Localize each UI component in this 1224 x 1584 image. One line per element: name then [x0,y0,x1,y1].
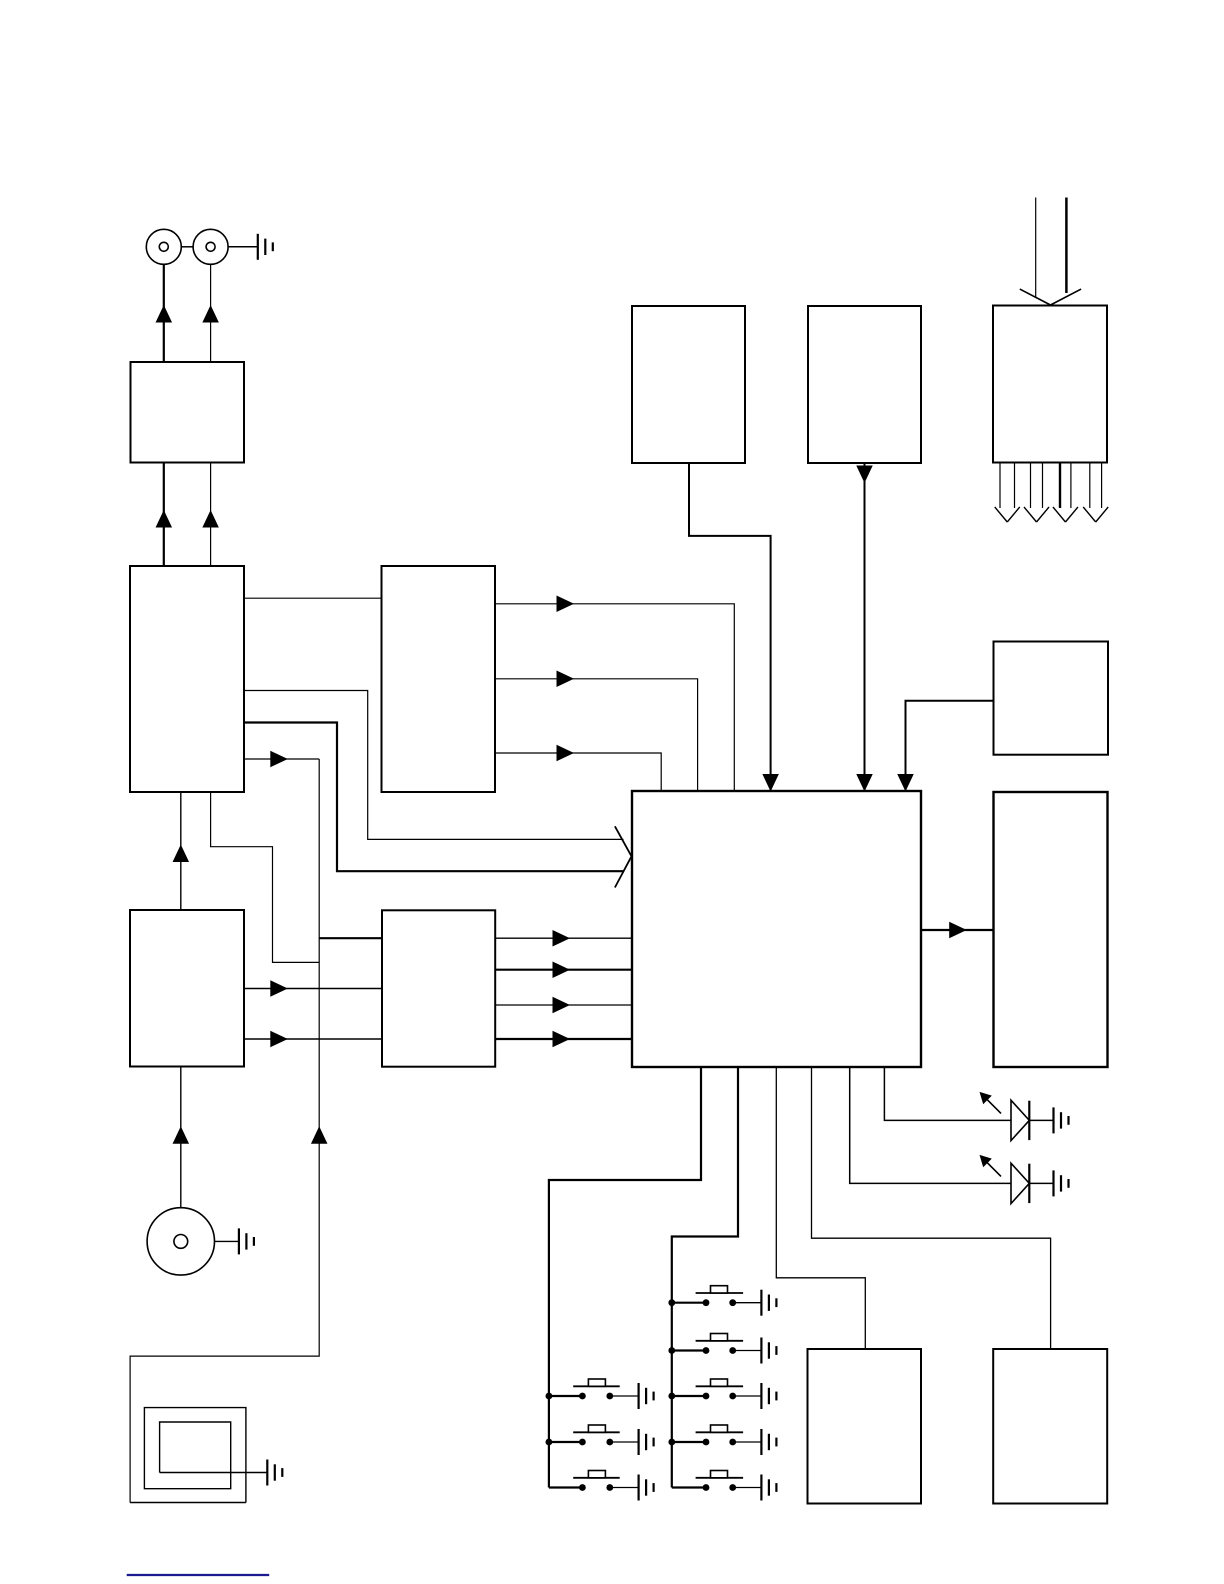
box U12 [808,1349,922,1504]
arrowhead up on wire U9-U2 [173,845,190,863]
wire J1-J2 [181,246,193,248]
hollow output arrow 3 from U6 [1053,463,1078,523]
ground at S8 [761,1475,776,1501]
arrowhead right on U3 out3 [557,745,575,762]
bus arrowhead chevron at U8 [615,826,632,887]
ground at S5 [761,1338,776,1364]
box U7 [994,642,1109,755]
hollow output arrow 2 from U6 [1024,463,1049,523]
arrowhead up on wire U2-U1 left [156,510,173,528]
box U4 [632,306,745,463]
ground G3 at D1 [1054,1107,1069,1133]
wire U2 out lower [244,758,319,760]
ground at S1 [639,1383,654,1409]
wire U5 to U8 [864,463,866,791]
wire L1 to ground [160,1472,268,1474]
wire U8 to LED D1 [884,1067,1011,1120]
ground at S7 [761,1429,776,1455]
arrowhead up on vertical long [311,1126,328,1144]
wire U10 out3 to U8 [495,1004,632,1006]
arrowhead down near U5 [856,466,873,484]
box U13 [993,1349,1107,1504]
hollow output arrow 1 from U6 [995,463,1020,523]
box U1 [131,362,245,463]
wire U2 bus upper [244,691,624,840]
wire U2 to U1 right [210,463,212,567]
arrowhead right on U3 out2 [557,671,575,688]
LED D1 [980,1092,1054,1141]
box U8 (central controller) [632,791,921,1067]
ground at S4 [761,1290,776,1316]
wire U2 bus lower [244,723,624,872]
wire U3 out2 [495,679,698,791]
wire U8 to right key bus [672,1067,738,1488]
wire U2 to U1 left [163,463,165,567]
box U3 [382,566,496,792]
arrowhead right on U3 out1 [557,596,575,613]
wire U8 to U13 [812,1067,1051,1349]
microphone MK1 [147,1208,214,1275]
ground G5 at L1 [267,1460,282,1486]
ground G4 at D2 [1054,1170,1069,1196]
wire U2 to U3 [244,597,382,599]
footer link underline [127,1574,270,1576]
LED D2 [980,1155,1054,1204]
hollow output arrow 4 from U6 [1083,463,1108,523]
box U10 [382,910,495,1066]
box U11 [994,792,1108,1067]
connector J2 (phono jack) [193,229,228,264]
arrowhead up on wire U2-U1 right [202,510,219,528]
arrowhead down at U8 from U7 [897,774,914,792]
wire U3 out1 [495,604,734,791]
connector J1 (phono jack) [146,229,181,264]
arrowhead right on U8-U11 [949,922,967,939]
wire U10 out1 to U8 [495,937,632,939]
ground at S2 [639,1429,654,1455]
ground at S3 [639,1475,654,1501]
arrowhead up on mic wire [173,1126,190,1144]
push switch S8 [672,1471,762,1491]
wire U9 to microphone [180,1067,182,1208]
ground G2 at mic [239,1228,254,1254]
arrowhead up on wire U1-J2 [202,305,219,323]
push switch S6 [668,1379,761,1399]
wire U10 out2 to U8 [495,969,632,971]
box U6 [993,306,1107,463]
ground at S6 [761,1383,776,1409]
arrowhead down at U8 from U5 [856,774,873,792]
wire mic to ground [215,1240,239,1242]
wire U9 out2 to U10 [244,1038,382,1040]
box U5 [808,306,921,463]
push switch S3 [549,1471,639,1491]
box U2 [130,566,244,792]
push switch S1 [546,1379,639,1399]
wire U9 to U2 [180,792,182,910]
box U9 [130,910,244,1067]
arrowhead right on U10 out3 [553,997,571,1014]
wire U8 to left key bus [549,1067,701,1488]
wire step from U2 bottom [211,792,320,962]
wire U9 out1 to U10 [244,988,382,990]
ground G1 [258,234,273,260]
push switch S4 [668,1286,761,1306]
wire U1 to J2 [210,264,212,362]
arrowhead right on U9 out1 [270,980,288,997]
arrowhead right on U9 out2 [270,1031,288,1048]
push switch S2 [546,1425,639,1445]
wire U8 to LED D2 [850,1067,1011,1183]
wire vertical long [130,759,319,1503]
loop antenna L1 (spiral) [130,1502,246,1504]
wire U8 to U12 [776,1067,865,1349]
push switch S7 [668,1425,761,1445]
arrowhead up on wire U1-J1 [156,305,173,323]
wire U10 out4 to U8 [495,1038,632,1040]
push switch S5 [668,1334,761,1354]
arrowhead right on U10 out4 [553,1031,571,1048]
arrowhead right on U2 out lower [270,751,288,768]
wire U4 to U8 [689,463,771,791]
arrowhead right on U10 out2 [553,961,571,978]
wire J2 to ground [228,246,258,248]
wire U1 to J1 [163,264,165,362]
arrowhead right on U10 out1 [553,930,571,947]
wide input arrow into U6 [1020,198,1081,306]
wire U8 to U11 [921,929,994,931]
wire U3 out3 [495,753,661,791]
wire branch to U10 [319,937,382,939]
arrowhead down on wire U4-U8 [762,774,779,792]
wire U7 to U8 [906,701,994,791]
